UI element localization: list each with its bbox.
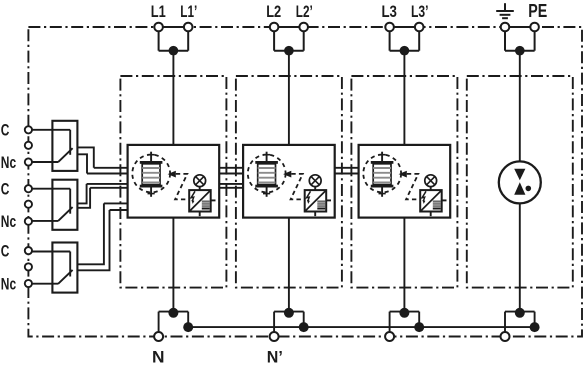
surge arrester module U1 <box>128 145 220 218</box>
contact 3 output B wire <box>77 210 109 270</box>
terminal Nc3 <box>25 280 32 287</box>
ground symbol bar 2 <box>500 14 511 16</box>
signal line 6 segment <box>110 209 128 211</box>
signal line 4 segment <box>90 187 128 189</box>
terminal NO3 <box>25 263 32 270</box>
signal line 2 segment <box>335 173 359 175</box>
signalling contact K1 <box>31 121 77 171</box>
signal line 5 segment <box>104 202 128 204</box>
bottom terminal group 3 <box>385 308 424 341</box>
terminal Nc1 <box>25 158 32 165</box>
ground symbol stem <box>504 3 506 11</box>
N-PE module dashed boundary <box>467 76 573 288</box>
contact 2 output A wire <box>77 184 86 204</box>
SPD module 1 dashed boundary <box>120 76 226 288</box>
surge arrester module U2 <box>243 145 335 218</box>
svg-text:C: C <box>1 180 10 199</box>
SPD module 2 dashed boundary <box>236 76 342 288</box>
wire L2 drop <box>288 51 290 145</box>
signal line 1 segment <box>335 167 359 169</box>
terminal C1 <box>25 126 32 133</box>
svg-text:L3’: L3’ <box>411 2 429 21</box>
terminal C3 <box>25 247 32 254</box>
signal line 2 segment <box>87 173 128 175</box>
N-PE spark gap upper electrode <box>514 169 525 181</box>
wire PE drop <box>519 51 521 312</box>
bottom terminal group N' <box>270 308 309 341</box>
signal line 1 segment <box>219 167 243 169</box>
terminal C2 <box>25 185 32 192</box>
signal line 3 segment <box>87 183 128 185</box>
wire module 3 output <box>403 218 405 312</box>
svg-text:Nc: Nc <box>1 153 16 172</box>
svg-text:C: C <box>1 121 10 140</box>
svg-text:L3: L3 <box>381 2 397 21</box>
ground symbol bar 1 <box>496 10 514 12</box>
svg-text:L2: L2 <box>266 2 281 21</box>
ground symbol bar 3 <box>502 17 508 19</box>
wire module 2 output <box>288 218 290 312</box>
wire L3 drop <box>403 51 405 145</box>
contact 3 output A wire <box>77 203 104 264</box>
wire module 1 output <box>172 218 174 312</box>
svg-text:C: C <box>1 241 10 260</box>
terminal pair L3 L3' <box>385 23 423 56</box>
terminal NO1 <box>25 142 32 149</box>
svg-text:L1’: L1’ <box>180 2 197 21</box>
signalling contact K3 <box>31 243 77 293</box>
svg-text:Nc: Nc <box>1 212 16 231</box>
terminal pair ground PE <box>501 23 539 56</box>
N-PE spark gap dot <box>526 186 532 192</box>
contact 1 output A wire <box>77 147 93 167</box>
terminal Nc2 <box>25 218 32 225</box>
signal line 4 segment <box>219 187 243 189</box>
svg-text:L1: L1 <box>151 2 166 21</box>
svg-text:PE: PE <box>528 1 547 21</box>
N-PE spark gap lower electrode <box>514 182 525 194</box>
outer enclosure dash-dot border <box>28 27 582 337</box>
terminal pair L2 L2' <box>270 23 308 56</box>
terminal NO2 <box>25 201 32 208</box>
wire L1 drop <box>172 51 174 145</box>
terminal pair L1 L1' <box>154 23 192 56</box>
N-PE spark gap circle <box>499 161 541 203</box>
signal line 2 segment <box>219 173 243 175</box>
svg-text:N: N <box>152 347 165 366</box>
bottom terminal group N <box>154 308 193 341</box>
SPD module 3 dashed boundary <box>351 76 457 288</box>
contact 1 output B wire <box>77 154 87 173</box>
signalling contact K2 <box>31 180 77 230</box>
N bus wire <box>188 326 534 328</box>
svg-text:N’: N’ <box>267 347 283 366</box>
svg-text:Nc: Nc <box>1 274 16 293</box>
signal line 1 segment <box>94 167 128 169</box>
surge arrester module U3 <box>359 145 451 218</box>
svg-text:L2’: L2’ <box>296 2 313 21</box>
contact 2 output B wire <box>77 188 90 208</box>
bottom terminal group PE <box>501 308 540 341</box>
signal line 3 segment <box>219 183 243 185</box>
